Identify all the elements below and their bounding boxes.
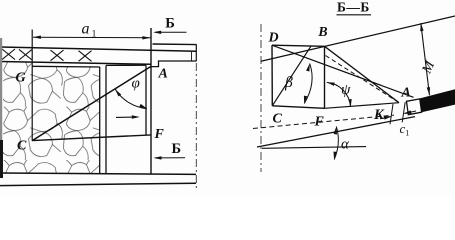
svg-text:B: B bbox=[317, 25, 327, 40]
svg-text:F: F bbox=[314, 115, 325, 130]
svg-text:a: a bbox=[82, 21, 90, 38]
svg-text:φ: φ bbox=[132, 76, 140, 92]
svg-text:F: F bbox=[154, 127, 165, 142]
svg-text:C: C bbox=[273, 112, 283, 127]
svg-text:C: C bbox=[17, 139, 27, 154]
svg-text:Б: Б bbox=[165, 16, 175, 32]
svg-text:α: α bbox=[341, 136, 350, 152]
svg-text:A: A bbox=[158, 67, 168, 82]
svg-text:Б—Б: Б—Б bbox=[337, 0, 370, 14]
svg-text:K: K bbox=[373, 107, 385, 123]
svg-text:β: β bbox=[284, 74, 293, 91]
svg-text:Б: Б bbox=[172, 141, 182, 157]
svg-text:A: A bbox=[401, 86, 411, 101]
svg-text:ψ: ψ bbox=[341, 82, 351, 98]
svg-text:1: 1 bbox=[92, 29, 97, 39]
svg-text:1: 1 bbox=[405, 128, 409, 137]
svg-text:G: G bbox=[16, 71, 26, 86]
svg-text:D: D bbox=[268, 31, 279, 46]
